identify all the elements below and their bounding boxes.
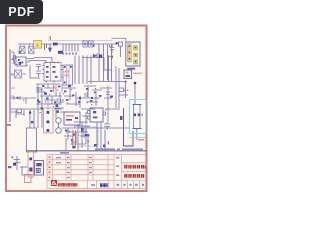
highlighted resistor pair (54, 84, 57, 92)
secondary wires (75, 56, 112, 85)
node dot (87, 141, 89, 143)
electrolytic capacitor C20 (134, 105, 141, 129)
red fuse marks (83, 40, 84, 41)
wire risers to rectifier (99, 44, 112, 81)
wire neutral (faint upper) (48, 40, 112, 42)
red specks left-mid (23, 100, 54, 114)
feedback network wires (36, 84, 102, 118)
jumper block J3 (124, 70, 142, 79)
test point marks (94, 144, 106, 147)
revision checkmarks (49, 156, 51, 178)
pin-1 red marks (41, 86, 96, 105)
resistor R21 (100, 86, 112, 104)
pink highlighted fuse bar (28, 152, 34, 177)
table cell micro text (56, 152, 119, 178)
capacitor C3 (36, 65, 41, 78)
faint module outline (78, 127, 98, 146)
MOV box with X (11, 70, 26, 78)
capacitor C12 (97, 122, 110, 150)
component labels (small blue marks) (38, 85, 102, 103)
red outline component (25, 175, 32, 183)
company stamp logo (51, 180, 57, 186)
red pin mark C5 (109, 45, 110, 47)
wire AC line bus (18, 43, 116, 45)
PWM controller U1 (42, 62, 63, 82)
regulator U3 (box with tabs) (88, 108, 106, 122)
output bus (88, 81, 127, 99)
optocoupler U2 (64, 112, 80, 125)
connector CN1 (10, 49, 21, 65)
approver text (blue CJK blobs) (100, 183, 108, 187)
schematic sheet (6, 26, 147, 192)
capacitor CX1 (20, 44, 26, 54)
small caps row (65, 130, 89, 142)
ground rail drops (66, 134, 105, 151)
sense line (dark) (120, 108, 133, 146)
annotation microtext row (95, 148, 143, 150)
thermistor RT1 (14, 156, 21, 170)
relay K1 (35, 161, 44, 176)
schematic/table separator line (27, 150, 147, 152)
red pin mark (108, 141, 109, 144)
wire (22, 167, 34, 175)
inductor comb L1 pins (63, 44, 78, 52)
capacitor C7 (107, 55, 113, 82)
polarity blob (13, 163, 16, 166)
heatsink box (27, 128, 37, 152)
sheet number row marks (117, 184, 145, 186)
junction dot (29, 112, 31, 114)
left power bus (9, 55, 11, 122)
company name (red CJK blobs) (0, 0, 149, 198)
junction dots left-mid (17, 97, 59, 113)
cyan selection box (130, 100, 147, 138)
secondary rail (10, 66, 130, 148)
title text: sheet name (red CJK blobs) (0, 0, 149, 198)
node square J2 (110, 42, 122, 57)
wire to connector top (112, 38, 126, 42)
resistor label (red) (138, 139, 144, 141)
diode D1 (93, 54, 102, 59)
wire to PWM (14, 55, 53, 78)
transient suppressor cluster bottom-left (14, 156, 35, 175)
wires below optocoupler (62, 112, 92, 144)
extra net wires (42, 84, 62, 110)
wire (135, 84, 137, 140)
title text: drawing number (red CJK blobs) (124, 174, 144, 178)
red specks lower cluster (69, 126, 86, 136)
label text tiny (8, 166, 12, 168)
bus end label (7, 124, 11, 126)
node mark (93, 45, 95, 47)
dots on secondary rail (79, 97, 93, 136)
resistor R11 (37, 87, 87, 103)
capacitor C15 (red highlighted) (73, 130, 76, 148)
pink net highlight (44, 108, 54, 133)
title block grid (47, 155, 146, 189)
arrow down at node K (45, 44, 52, 52)
components at (119,88) (119, 88, 128, 95)
bridge rectifier BD1 (12, 57, 34, 66)
pin specks U3 (87, 102, 106, 114)
left tap wires (10, 96, 64, 128)
wire drops into heatsink (30, 110, 34, 128)
capacitor CX2 (29, 44, 35, 54)
solid node dot J1 (116, 42, 118, 44)
page background (0, 0, 149, 198)
PDF badge (0, 0, 43, 24)
relay contacts K2 (83, 41, 93, 47)
varistor RV1 (56, 118, 62, 134)
node dot (134, 82, 137, 85)
connector CN2 (126, 42, 140, 70)
label net AC (50, 36, 63, 54)
bus stubs (11, 75, 15, 96)
transformer T1 (63, 65, 73, 85)
label (110, 96, 113, 98)
pin labels under comb (62, 53, 77, 55)
fuse FS1 (yellow highlight) (34, 41, 42, 49)
net nodes on pink net (47, 111, 50, 132)
tiny check marks (91, 184, 95, 186)
